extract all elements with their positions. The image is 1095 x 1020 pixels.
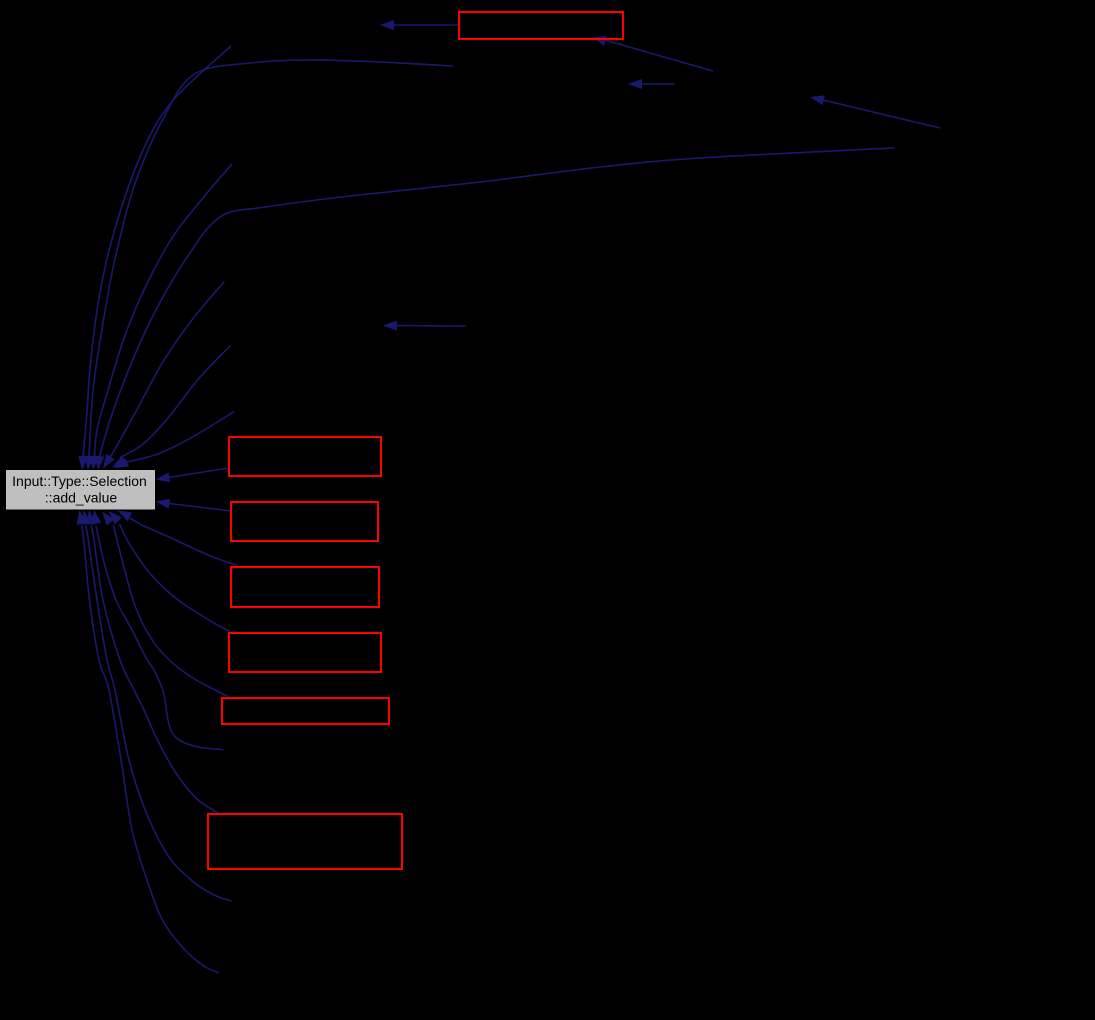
caller box big [208,814,402,869]
wire b4 caller curve (223,750) to hub bottom [92,510,224,750]
caller box 5 [222,698,389,724]
wire EE arrow at (383,325.5) [383,321,466,331]
caller box top red [459,12,623,39]
wire C1 caller curve (231,46) to hub top [78,46,231,470]
wire b7 caller curve (219,973) to hub bottom [77,510,220,973]
node Input::Type::Selection::add_value [6,470,155,510]
wire C7 caller curve (230,345) to hub top [112,345,231,467]
wire b6 caller curve (232,902) to hub bottom [81,510,232,901]
wire b2 from caller box 4 corner to hub bottom [109,511,229,631]
svg-text:::add_value: ::add_value [45,490,118,506]
wire b1 from caller box 3 corner to hub bottom [118,511,238,566]
wire A2 from caller box 2 to hub right edge [156,499,232,511]
wire EB short arrow at (628,84) [628,79,675,89]
wire EA arrow into top red box bottom corner [592,36,713,71]
wire ED long caller curve (894,148) to hub top [95,148,895,470]
wire C2 caller curve (453,66) to hub top [84,60,453,470]
wire arrow from top red box pointing left [380,20,459,30]
wire EC arrow from (940,128) [810,95,940,128]
caller box 4 [229,633,381,672]
caller box 3 [231,567,379,607]
wire b5 from caller big box corner to hub bottom [87,510,219,813]
wire b3 from caller box 5 corner to hub bottom [102,512,229,697]
caller box 2 [231,502,378,541]
wire C8 caller line (234,412) to hub top corner [115,412,235,469]
svg-text:Input::Type::Selection: Input::Type::Selection [12,473,147,489]
wire A1 from caller box 1 to hub right edge [156,468,230,482]
wire C6 caller curve (224,281) to hub top [103,282,224,469]
wire C3 caller curve (232,164) to hub top [89,164,232,470]
caller box 1 [229,437,381,476]
